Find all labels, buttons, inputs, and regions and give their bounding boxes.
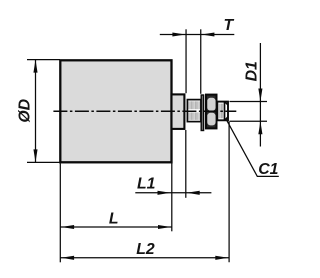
dim OD extension bottom: [27, 161, 60, 163]
hex nut body: [206, 95, 217, 129]
dim L1 line: [135, 192, 211, 194]
collar: [172, 94, 185, 128]
thread texture upper: [189, 101, 200, 109]
dim T extension left: [185, 29, 187, 93]
dim OD arrow down: [33, 149, 37, 162]
dim T arrow right: [172, 32, 185, 36]
washer: [201, 95, 203, 131]
dim T arrow left: [201, 32, 214, 36]
dim L1 arrow left: [187, 191, 200, 195]
thread texture lower: [189, 112, 200, 120]
dim D1 line: [259, 43, 261, 147]
pin chamfer corner bottom: [225, 117, 229, 120]
pin chamfer line: [224, 102, 226, 121]
svg-text:L1: L1: [137, 176, 155, 193]
svg-text:C1: C1: [258, 161, 278, 178]
dim D1 extension bottom: [230, 120, 268, 122]
dim OD extension top: [27, 59, 60, 61]
dim D1 arrow down: [258, 89, 262, 102]
nut facet upper: [207, 98, 215, 111]
svg-text:ØD: ØD: [16, 99, 33, 123]
dim D1 extension top: [230, 101, 268, 103]
cylinder body: [60, 60, 171, 162]
dim L arrow left: [61, 225, 74, 229]
dim L2 arrow right: [215, 256, 228, 260]
dim L2 line: [60, 257, 229, 259]
dim L2 extension left: [59, 164, 61, 263]
dim L2 arrow left: [61, 256, 74, 260]
centerline: [53, 110, 236, 112]
dim L2 extension right: [228, 122, 230, 263]
svg-text:D1: D1: [244, 61, 261, 81]
dim OD arrow up: [33, 60, 37, 73]
leader C1: [226, 119, 279, 176]
dim D1 arrow up: [258, 121, 262, 134]
dim L arrow right: [158, 225, 171, 229]
dim T extension right: [200, 29, 202, 94]
svg-text:L: L: [109, 210, 119, 227]
dim OD line: [35, 60, 37, 163]
threaded section outline: [187, 100, 201, 122]
dim L1 arrow right: [158, 191, 171, 195]
dim T line: [160, 34, 235, 36]
dim L line: [60, 226, 172, 228]
dim L1 extension left: [171, 130, 173, 231]
dim L1 extension right: [185, 130, 187, 198]
nut facet lower: [207, 113, 215, 126]
pin chamfer corner top: [225, 102, 229, 105]
threaded pin end: [217, 102, 228, 121]
svg-text:T: T: [223, 17, 234, 34]
svg-text:L2: L2: [136, 241, 155, 258]
pin thread texture: [219, 104, 223, 119]
